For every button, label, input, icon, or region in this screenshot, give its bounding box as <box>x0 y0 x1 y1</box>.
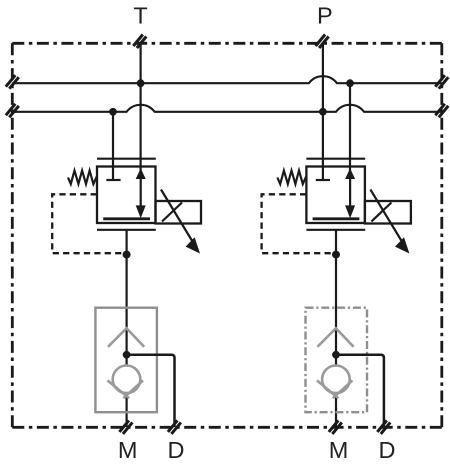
T rail left boundary slash <box>6 75 19 89</box>
left valve seat tick <box>106 179 120 181</box>
junction: T line on T rail <box>137 79 145 87</box>
left check ball <box>113 366 141 394</box>
left valve top land line <box>97 158 156 160</box>
wire: P port down to right valve seat <box>322 43 324 181</box>
D port boundary slash (left) <box>168 420 181 434</box>
svg-text:D: D <box>379 437 396 463</box>
right check valve chevron <box>317 328 353 347</box>
right valve inner seat line <box>313 217 360 220</box>
junction: pilot tap on output <box>332 251 340 259</box>
T rail (upper horizontal line, bump over P line) <box>12 76 442 83</box>
junction: right valve drain on T rail <box>346 79 354 87</box>
right valve bottom land line <box>306 229 365 231</box>
right adjustment arrow <box>370 190 409 254</box>
left valve spring <box>68 171 97 185</box>
svg-text:D: D <box>168 437 185 463</box>
wire: P rail down to left valve seat <box>112 112 114 180</box>
junction: left valve feed on P rail <box>109 108 117 116</box>
right valve body box <box>306 167 365 224</box>
svg-text:M: M <box>329 437 349 463</box>
left valve double arrow <box>136 168 146 218</box>
svg-text:T: T <box>133 3 147 29</box>
left check seat <box>108 380 130 398</box>
left valve body box <box>97 167 156 224</box>
right valve top land line <box>306 158 365 160</box>
wire: T rail down to right valve arrow <box>349 83 351 171</box>
wire: left valve output down to M port <box>125 230 127 367</box>
M port boundary slash (right) <box>329 420 342 434</box>
T port boundary slash <box>133 35 146 49</box>
junction: branch to D <box>123 351 131 359</box>
P port boundary slash <box>316 35 329 49</box>
right solenoid cross stroke <box>371 203 391 222</box>
D port boundary slash (right) <box>377 420 390 434</box>
left check valve chevron <box>108 328 144 347</box>
right check valve frame (dash-dot) <box>306 308 368 413</box>
wire: right valve output down to M port <box>335 230 337 367</box>
wire: branch to D port <box>127 355 175 427</box>
M port boundary slash (left) <box>119 420 132 434</box>
left check valve frame <box>95 308 156 413</box>
junction: branch to D <box>332 351 340 359</box>
right check seat <box>317 380 339 398</box>
left solenoid box <box>156 201 202 224</box>
right valve double arrow <box>345 168 355 218</box>
right solenoid box <box>365 201 411 224</box>
wire: branch to D port <box>336 355 384 427</box>
left valve bottom land line <box>97 229 156 231</box>
P rail (lower horizontal line, bumps over T line and right drain) <box>12 105 442 112</box>
left solenoid cross stroke <box>162 203 182 222</box>
junction: P line on P rail <box>319 108 327 116</box>
wire: T port down to left valve arrow <box>140 43 142 172</box>
P rail left boundary slash <box>6 104 19 118</box>
T rail right boundary slash <box>435 75 448 89</box>
right valve seat tick <box>316 179 330 181</box>
right valve pilot dashed line <box>262 194 334 253</box>
junction: pilot tap on output <box>123 251 131 259</box>
left adjustment arrow <box>161 190 200 254</box>
svg-text:M: M <box>118 437 138 463</box>
right valve spring <box>277 171 306 185</box>
left valve pilot dashed line <box>52 194 124 253</box>
P rail right boundary slash <box>435 104 448 118</box>
enclosure border <box>12 43 442 427</box>
left valve inner seat line <box>103 217 150 220</box>
right check ball <box>322 366 350 394</box>
svg-text:P: P <box>317 3 333 29</box>
